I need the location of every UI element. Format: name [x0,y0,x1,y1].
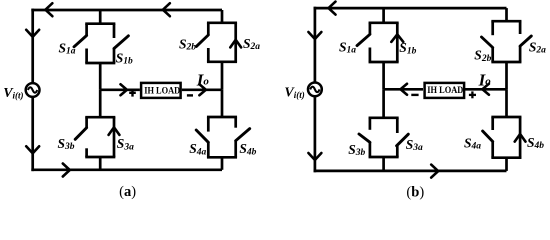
current arrow right out of load (a) [199,84,206,95]
AC source Vi(t) (a) [26,83,40,97]
switch S3a (open) (b) [396,118,399,133]
wire: middle link left segment (b) [384,88,423,91]
switch S4b (open) [234,117,237,128]
wire: left wire upper segment (b) [314,7,317,82]
switch S3 top bar [85,116,115,119]
wire: right column top corner to S2 (b) [505,8,508,21]
switch S3a (closed, conducting up) [113,117,116,157]
current arrow left out of load (b) [401,84,408,95]
switch S3 bottom bar [85,156,115,159]
switch S2 bottom bar (b) [491,61,521,64]
current arrow down on left wire below source (b) [308,153,321,160]
switch S4 bottom bar [207,156,237,159]
AC source Vi(t) (b) [308,83,322,97]
svg-text:Vi(t): Vi(t) [3,86,23,101]
switch S1 top bar (b) [369,21,399,24]
current arrow right on bottom bus (b) [431,165,438,178]
switch S3b (open) (b) [369,118,372,130]
current chevron on S3a [109,127,120,135]
wire: top bus (b) [314,7,507,10]
switch S2 top bar (b) [491,20,521,23]
wire: left wire lower segment (b) [314,97,317,172]
switch S4b (closed, conducting up) (b) [519,117,522,158]
IH LOAD box (b) [425,83,465,98]
switch S4a (open) [207,117,210,132]
svg-text:S2b: S2b [179,36,196,52]
switch S4 bottom bar (b) [491,156,521,159]
wire: bottom bus (a) [31,168,222,171]
svg-text:IH LOAD: IH LOAD [427,85,463,96]
svg-text:IH LOAD: IH LOAD [144,86,180,97]
IH LOAD box (a) [141,83,181,98]
svg-text:S2a: S2a [243,36,260,52]
current arrow left on top bus near corner (a) [45,3,52,16]
circuit (b) H-bridge [284,2,546,201]
wire: left column middle node to S3 (b) [382,89,385,118]
wire: S4 to bottom bus corner (b) [505,158,508,171]
wire: S3 to bottom bus (b) [382,157,385,171]
svg-text:S3b: S3b [58,136,75,152]
wire: bottom bus (b) [314,170,507,173]
current arrow right on bottom bus (a) [63,164,70,177]
wire: S1 feed from top bus (b) [382,8,385,23]
wire: left wire upper segment (a) [31,9,34,83]
svg-text:S3a: S3a [406,137,423,153]
switch S2 bottom bar [207,60,237,63]
switch S1a (open) (b) [369,23,372,35]
wire: right column S2 to middle node (b) [505,62,508,89]
switch S1b (open) [113,24,116,38]
svg-text:S4b: S4b [527,135,544,151]
current arrow down on left wire above source (a) [26,30,39,37]
svg-text:S1b: S1b [399,40,416,56]
wire: S1 feed from top bus (a) [99,10,102,24]
svg-text:S1a: S1a [339,40,356,56]
plus sign (a) [129,92,136,94]
switch S2 top bar [207,21,237,24]
svg-text:S3b: S3b [348,142,365,158]
switch S2a (closed, conducting up) [234,23,237,62]
svg-text:Io: Io [196,70,210,89]
wire: left column S1 to middle node (b) [382,62,385,89]
wire: middle link right segment (b) [465,88,507,91]
switch S4 top bar [207,116,237,119]
svg-text:S1b: S1b [116,50,133,66]
wire: top bus (a) [31,9,222,12]
svg-text:S4a: S4a [189,141,206,157]
wire: left column middle node to S3 (a) [99,90,102,117]
svg-text:Vi(t): Vi(t) [284,85,304,100]
switch S2a (open) (b) [519,21,522,34]
switch S2b (open) (b) [491,21,494,35]
svg-text:S4b: S4b [239,141,256,157]
minus sign (b) [411,94,418,96]
wire: right column middle node to S4 (a) [221,90,224,117]
wire: right column middle node to S4 (b) [505,89,508,117]
switch S2b (open) [207,23,210,35]
svg-text:(b): (b) [406,185,424,201]
svg-text:(a): (a) [119,184,136,200]
switch S1b (closed, conducting up) (b) [396,23,399,62]
current arrow left on top bus mid (a) [163,3,170,16]
svg-text:S1a: S1a [59,41,76,57]
wire: right column top corner to S2 (a) [221,10,224,23]
switch S1 (bidirectional) top bar [85,22,115,25]
current chevron on S2a [230,40,241,48]
current arrow down on left wire below source (a) [26,146,39,153]
switch S4 top bar (b) [491,116,521,119]
switch S1 bottom bar (b) [369,61,399,64]
switch S3 top bar (b) [369,116,399,119]
svg-text:S2b: S2b [474,48,491,64]
svg-text:Io: Io [478,71,492,90]
wire: right column S2 to middle node (a) [221,62,224,90]
svg-text:S3a: S3a [117,136,134,152]
circuit (a) H-bridge [3,3,260,200]
current arrow down on left wire above source (b) [308,32,321,39]
current arrow left into load (b) [482,84,489,95]
current arrow right into load (a) [121,84,128,95]
plus sign (b) [469,94,476,96]
wire: S3 to bottom bus (a) [99,157,102,170]
svg-text:S2a: S2a [529,40,546,56]
current arrow left on top bus (b) [329,2,336,15]
switch S3 bottom bar (b) [369,156,399,159]
current chevron on S4b (b) [515,134,526,142]
wire: S4 to bottom bus corner (a) [221,157,224,170]
wire: left column S1 to middle node (a) [99,63,102,90]
minus sign (a) [187,94,193,96]
switch S1a (open) [85,24,88,36]
current chevron on S1b (b) [391,34,403,42]
wire: middle link right segment (a) [182,88,222,91]
wire: middle link left segment (a) [100,88,140,91]
wire: left wire lower segment (a) [31,98,34,171]
switch S4a (open) (b) [491,117,494,130]
switch S1 bottom bar [85,62,115,65]
svg-text:S4a: S4a [464,136,481,152]
switch S3b (open) [85,117,88,128]
